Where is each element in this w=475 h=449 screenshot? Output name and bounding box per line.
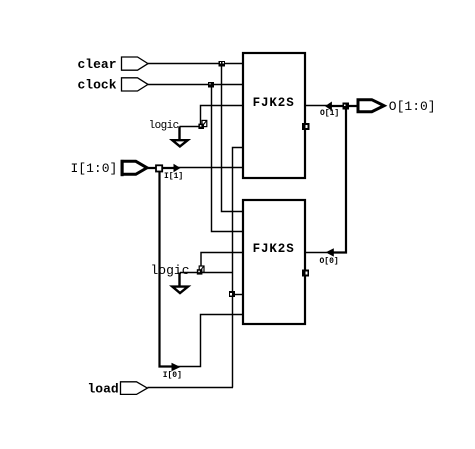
svg-text:clear: clear: [78, 57, 117, 72]
svg-text:I[1]: I[1]: [164, 172, 183, 181]
svg-text:FJK2S: FJK2S: [253, 242, 295, 256]
svg-text:I[0]: I[0]: [163, 371, 182, 380]
svg-text:clock: clock: [78, 78, 117, 93]
svg-text:O[0]: O[0]: [320, 257, 339, 266]
svg-text:O[1]: O[1]: [320, 109, 339, 118]
svg-text:logic: logic: [149, 120, 179, 132]
svg-text:load: load: [88, 382, 119, 397]
svg-text:FJK2S: FJK2S: [253, 96, 295, 110]
svg-text:logic: logic: [151, 263, 190, 278]
svg-text:O[1:0]: O[1:0]: [389, 99, 436, 114]
svg-text:I[1:0]: I[1:0]: [71, 161, 118, 176]
